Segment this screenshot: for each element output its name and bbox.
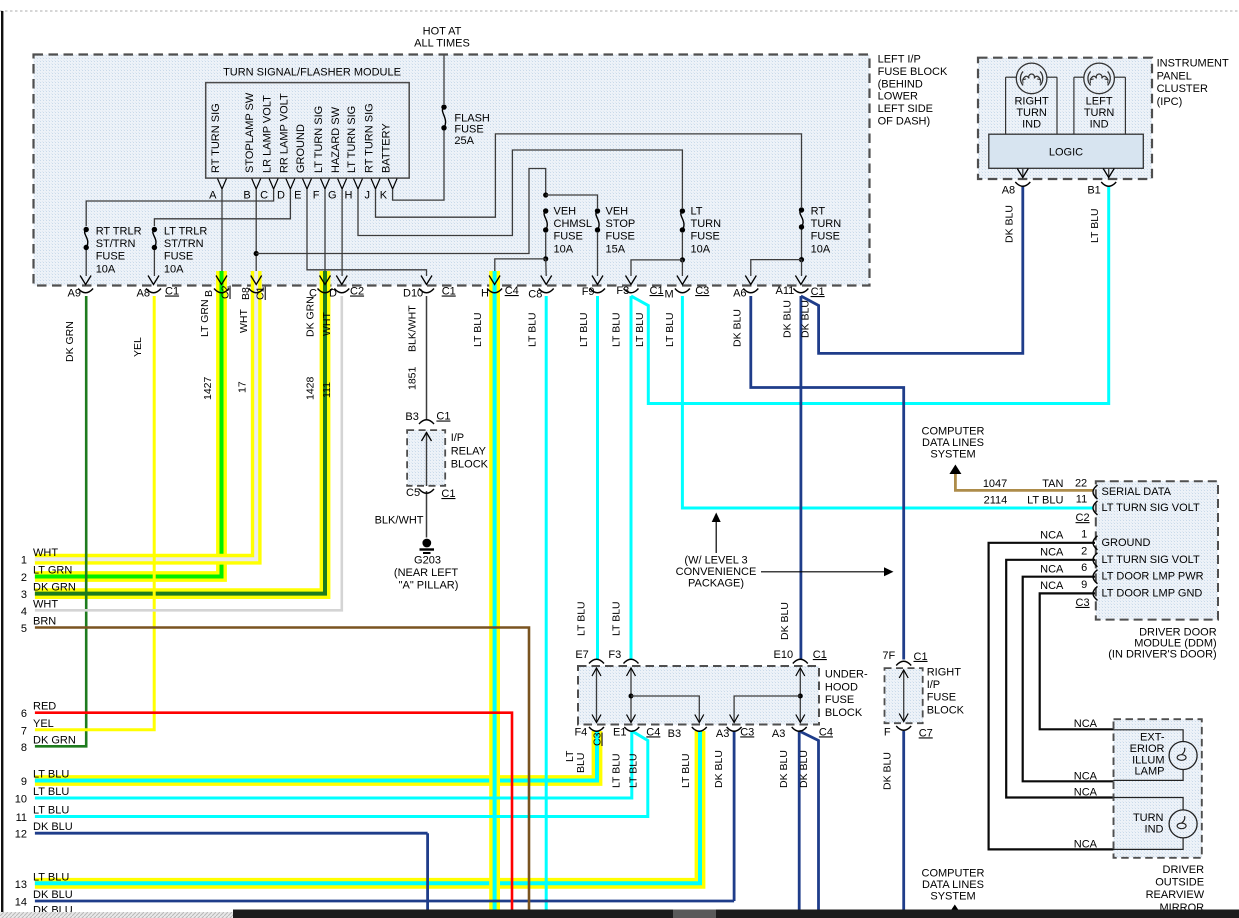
svg-text:DK BLU: DK BLU <box>882 752 894 790</box>
svg-text:DK GRN: DK GRN <box>33 734 76 746</box>
wire NCA DDM pin 2 to TURN IND lamp <box>1006 560 1114 798</box>
svg-text:C1: C1 <box>914 651 928 663</box>
svg-text:LT GRN: LT GRN <box>33 565 72 577</box>
svg-text:HOOD: HOOD <box>825 681 858 693</box>
wire TURN IND lamp return <box>1114 838 1184 850</box>
svg-text:F3: F3 <box>608 649 621 661</box>
wire EXTERIOR ILLUM LAMP return <box>1114 769 1184 780</box>
svg-text:CHMSL: CHMSL <box>554 218 593 230</box>
svg-text:10A: 10A <box>554 243 574 255</box>
flasher module pin-function box <box>206 83 410 179</box>
svg-text:ERIOR: ERIOR <box>1130 743 1165 755</box>
wire DK BLU connector A11 to UHFB pin E10 <box>800 296 803 660</box>
wire LT BLU row 9 to UHFB pin F4 (highlighted) <box>35 731 597 781</box>
svg-text:(IPC): (IPC) <box>1157 96 1183 108</box>
arrow to COMPUTER DATA LINES SYSTEM (lower) <box>949 905 961 914</box>
svg-text:25A: 25A <box>454 135 474 147</box>
svg-text:RED: RED <box>33 701 56 713</box>
svg-text:LT BLU: LT BLU <box>1027 495 1063 507</box>
wire LT BLU UHFB pin E1 to row 10 <box>35 731 632 798</box>
ground G203 symbol <box>422 539 431 548</box>
wire pin B to VEH CHMSL fuse feed <box>256 169 546 254</box>
svg-text:C2: C2 <box>350 286 364 298</box>
svg-text:DK BLU: DK BLU <box>731 309 743 347</box>
connector pin B3 of UHFB <box>692 727 707 731</box>
svg-text:CLUSTER: CLUSTER <box>1157 83 1208 95</box>
wire DK BLU connector A6 to RIGHT I/P FUSE BLOCK pin 7F <box>751 296 904 660</box>
svg-text:DK BLU: DK BLU <box>778 750 790 788</box>
svg-text:TURN: TURN <box>811 218 842 230</box>
svg-text:LT BLU: LT BLU <box>472 312 484 347</box>
svg-text:A8: A8 <box>1002 185 1015 197</box>
svg-text:DK BLU: DK BLU <box>1003 205 1015 243</box>
svg-text:PACKAGE): PACKAGE) <box>688 578 744 590</box>
svg-text:B3: B3 <box>668 728 681 740</box>
connector pin A11 at module edge <box>795 276 806 285</box>
wire DK BLU UHFB pin A3/C3 to row 14 <box>733 731 736 901</box>
svg-text:COMPUTER: COMPUTER <box>922 868 985 880</box>
svg-text:DK GRN: DK GRN <box>64 321 76 362</box>
wire WHT circuit 17 connector B8/C1 to row 1 (highlighted) <box>35 271 256 559</box>
svg-text:OUTSIDE: OUTSIDE <box>1155 877 1204 889</box>
svg-text:TURN: TURN <box>1133 812 1164 824</box>
svg-text:J: J <box>365 190 371 202</box>
svg-text:RT TURN SIG: RT TURN SIG <box>364 103 376 173</box>
svg-text:F3: F3 <box>616 285 629 297</box>
svg-text:LT TURN SIG VOLT: LT TURN SIG VOLT <box>1102 502 1200 514</box>
svg-text:DATA LINES: DATA LINES <box>922 437 984 449</box>
wire LT BLU connector H/C4 down off-page (highlighted) <box>489 271 500 910</box>
svg-text:D10: D10 <box>403 288 423 300</box>
connector pin C8 at module edge <box>541 276 552 285</box>
svg-text:LT BLU: LT BLU <box>627 753 639 788</box>
wire through RIGHT I/P FUSE BLOCK <box>903 670 905 722</box>
wire UHFB internal F3 to E1 <box>630 668 632 723</box>
wire junction to connector A6 <box>751 260 802 276</box>
svg-text:LR LAMP VOLT: LR LAMP VOLT <box>262 95 274 173</box>
wire LT BLU connector C8 down off-page <box>545 296 548 910</box>
svg-text:11: 11 <box>1076 493 1087 505</box>
svg-text:OF DASH): OF DASH) <box>878 116 931 128</box>
svg-text:UNDER-: UNDER- <box>825 669 868 681</box>
wire LT BLU UHFB pin E1 to row 11 <box>35 731 648 817</box>
svg-text:CONVENIENCE: CONVENIENCE <box>676 566 757 578</box>
svg-text:F: F <box>313 190 320 202</box>
svg-text:TURN: TURN <box>691 218 722 230</box>
svg-text:BLOCK: BLOCK <box>927 704 965 716</box>
svg-text:PANEL: PANEL <box>1157 70 1192 82</box>
svg-text:SERIAL DATA: SERIAL DATA <box>1102 486 1172 498</box>
connector pin A9 at module edge <box>80 276 91 285</box>
connector pin E10 / C1 of UHFB <box>793 659 808 663</box>
svg-text:K: K <box>380 190 388 202</box>
svg-text:LOWER: LOWER <box>878 91 918 103</box>
svg-text:TURN: TURN <box>1084 107 1115 119</box>
svg-text:TAN: TAN <box>1042 478 1063 490</box>
svg-text:FUSE: FUSE <box>164 251 193 263</box>
connector pin A6 at module edge <box>745 276 756 285</box>
svg-text:B3: B3 <box>405 411 418 423</box>
wire BLK/WHT circuit 1851 connector D10 to I/P RELAY BLOCK <box>426 296 428 421</box>
connector pin B3 of I/P RELAY BLOCK <box>419 420 434 424</box>
connector pin C at module edge <box>320 276 331 285</box>
svg-text:A3: A3 <box>716 728 729 740</box>
wire YEL connector A8/C1 to row 7 <box>35 296 154 730</box>
module UNDERHOOD FUSE BLOCK box <box>578 666 819 725</box>
svg-text:SYSTEM: SYSTEM <box>930 448 975 460</box>
svg-text:(BEHIND: (BEHIND <box>878 78 923 90</box>
svg-text:1: 1 <box>21 555 27 567</box>
svg-text:E10: E10 <box>774 649 794 661</box>
svg-text:BLK/WHT: BLK/WHT <box>375 515 424 527</box>
wire NCA DDM pin 9 to EXTERIOR ILLUM LAMP <box>1040 593 1114 729</box>
wire junction to VEH STOP fuse top <box>546 195 598 208</box>
svg-text:LT DOOR LMP PWR: LT DOOR LMP PWR <box>1102 571 1204 583</box>
svg-text:NCA: NCA <box>1040 563 1064 575</box>
svg-text:C1: C1 <box>650 285 664 297</box>
svg-text:FUSE: FUSE <box>811 231 840 243</box>
module I/P RELAY BLOCK box <box>407 430 445 486</box>
svg-text:I/P: I/P <box>927 679 940 691</box>
wire yoke RIGHT TURN IND lamp <box>1005 77 1007 134</box>
wire LT BLU connector F3 to UHFB pin F3 <box>630 296 633 660</box>
wire through I/P RELAY BLOCK <box>426 432 428 486</box>
svg-text:4: 4 <box>21 606 27 618</box>
svg-text:NCA: NCA <box>1074 839 1098 851</box>
wire UHFB E10 junction to A3 <box>734 696 800 723</box>
wire LT BLU connector F9 to UHFB pin E7 <box>596 296 599 660</box>
svg-text:NCA: NCA <box>1074 787 1098 799</box>
connector pin C5 of I/P RELAY BLOCK <box>419 489 434 493</box>
svg-text:D: D <box>277 190 285 202</box>
svg-text:5: 5 <box>21 623 27 635</box>
svg-text:FUSE: FUSE <box>691 231 720 243</box>
wire junction to connector C8 <box>545 259 548 276</box>
svg-text:IND: IND <box>1022 118 1041 130</box>
svg-text:(W/ LEVEL 3: (W/ LEVEL 3 <box>684 555 747 567</box>
svg-text:G203: G203 <box>414 555 441 567</box>
svg-text:BRN: BRN <box>33 616 56 628</box>
svg-text:WHT: WHT <box>33 598 58 610</box>
svg-text:YEL: YEL <box>33 718 54 730</box>
svg-text:LT TURN SIG VOLT: LT TURN SIG VOLT <box>1102 554 1200 566</box>
fuse VEH CHMSL FUSE 10A <box>543 208 548 213</box>
svg-text:HAZARD SW: HAZARD SW <box>330 106 342 173</box>
svg-text:VEH: VEH <box>606 206 629 218</box>
wire RT TURN fuse bottom <box>801 229 803 260</box>
svg-text:LEFT I/P: LEFT I/P <box>878 54 921 66</box>
svg-text:2: 2 <box>1081 545 1087 557</box>
connector pin F3 of UHFB <box>624 659 639 663</box>
module U1 TURN SIGNAL/FLASHER MODULE box (inside LEFT I/P FUSE BLOCK) <box>34 55 870 286</box>
svg-text:E7: E7 <box>575 649 588 661</box>
svg-text:8: 8 <box>21 742 27 754</box>
svg-text:TURN: TURN <box>1016 107 1047 119</box>
wire pin H to LT TURN fuse top <box>358 150 682 236</box>
connector pin 7F / C1 of RIGHT I/P FUSE BLOCK <box>896 661 911 665</box>
svg-text:COMPUTER: COMPUTER <box>922 426 985 438</box>
connector pin 6 (LT DOOR LMP PWR) of DDM <box>1093 570 1098 584</box>
svg-text:REARVIEW: REARVIEW <box>1146 889 1205 901</box>
svg-text:BATTERY: BATTERY <box>381 123 393 173</box>
svg-text:HOT AT: HOT AT <box>423 26 462 38</box>
connector pin A3 / C3 of UHFB <box>727 727 742 731</box>
wire junction to connector F3 <box>631 260 682 276</box>
svg-text:2: 2 <box>21 572 27 584</box>
wire UHFB F3 junction to B3 <box>631 696 699 723</box>
wire DK BLU row 12 <box>35 832 428 835</box>
wire UHFB internal E10 to A3 <box>799 668 801 723</box>
module RIGHT I/P FUSE BLOCK box <box>885 668 923 723</box>
svg-text:DRIVER: DRIVER <box>1163 864 1205 876</box>
svg-text:IND: IND <box>1090 118 1109 130</box>
wire WHT circuit 111 connector D to row 4 <box>35 296 342 610</box>
wire junction to connector M <box>681 260 683 276</box>
svg-text:ST/TRN: ST/TRN <box>96 238 136 250</box>
svg-text:LT BLU: LT BLU <box>680 753 692 788</box>
wire BRN row 5 down off-page <box>35 628 529 910</box>
svg-text:C1: C1 <box>811 286 825 298</box>
svg-text:DK BLU: DK BLU <box>33 889 73 901</box>
svg-text:13: 13 <box>15 879 27 891</box>
wire VEH CHMSL fuse bottom <box>545 233 547 259</box>
svg-text:C3: C3 <box>740 726 754 738</box>
svg-text:LEFT SIDE: LEFT SIDE <box>878 103 933 115</box>
wire LT BLU connector F3 to IPC pin B1 <box>631 186 1109 404</box>
svg-text:LT BLU: LT BLU <box>33 871 69 883</box>
svg-text:6: 6 <box>1081 562 1087 574</box>
svg-text:C3: C3 <box>592 732 604 746</box>
wire pin F to connector C <box>324 189 326 276</box>
svg-text:DK GRN: DK GRN <box>33 582 76 594</box>
svg-text:NCA: NCA <box>1074 771 1098 783</box>
svg-text:C5: C5 <box>406 487 420 499</box>
lamp RIGHT TURN IND indicator <box>1016 63 1047 94</box>
svg-text:F4: F4 <box>574 726 587 738</box>
svg-text:LT BLU: LT BLU <box>33 769 69 781</box>
svg-text:10A: 10A <box>691 243 711 255</box>
svg-text:1427: 1427 <box>202 376 214 400</box>
connector pin 1 (GROUND) of DDM <box>1093 536 1098 550</box>
wire pin K BATTERY to FLASH fuse <box>393 130 444 200</box>
svg-text:FUSE: FUSE <box>96 251 125 263</box>
svg-text:ILLUM: ILLUM <box>1132 754 1164 766</box>
svg-text:DK BLU: DK BLU <box>781 300 793 338</box>
svg-text:BLK/WHT: BLK/WHT <box>407 305 419 352</box>
svg-text:GROUND: GROUND <box>1102 537 1151 549</box>
module DRIVER DOOR MODULE (DDM) box <box>1096 481 1218 619</box>
wire LT BLU row 13 to UHFB pin B3 (highlighted) <box>35 731 700 883</box>
module INSTRUMENT PANEL CLUSTER (IPC) box <box>978 58 1152 179</box>
wire pin J to RT TURN fuse top <box>376 134 802 217</box>
svg-text:LT BLU: LT BLU <box>33 805 69 817</box>
svg-text:C1: C1 <box>255 286 267 300</box>
connector pin M at module edge <box>677 276 688 285</box>
svg-text:7F: 7F <box>882 650 895 662</box>
svg-text:TURN SIGNAL/FLASHER MODULE: TURN SIGNAL/FLASHER MODULE <box>223 67 401 79</box>
svg-text:WHT: WHT <box>321 312 333 336</box>
svg-text:NCA: NCA <box>1040 547 1064 559</box>
svg-text:RT: RT <box>811 206 826 218</box>
svg-text:C1: C1 <box>813 649 827 661</box>
wire FLASH fuse to HOT AT ALL TIMES <box>443 56 445 105</box>
fuse LT TRLR ST/TRN FUSE 10A <box>152 227 157 232</box>
connector pin 2 (LT TURN SIG VOLT) of DDM <box>1093 553 1098 567</box>
svg-text:17: 17 <box>237 381 249 393</box>
svg-text:YEL: YEL <box>132 337 144 357</box>
connector pin 9 (LT DOOR LMP GND) of DDM <box>1093 586 1098 600</box>
svg-text:LT BLU: LT BLU <box>611 601 623 636</box>
svg-text:B: B <box>243 190 250 202</box>
svg-text:LT BLU: LT BLU <box>576 601 588 636</box>
junction below VEH CHMSL fuse <box>543 256 548 261</box>
wire LT TRLR fuse to connector A8 <box>153 250 155 276</box>
wire LT TURN fuse bottom <box>681 233 683 260</box>
svg-text:E: E <box>294 190 301 202</box>
block LOGIC inside IPC <box>989 134 1144 168</box>
module DRIVER OUTSIDE REARVIEW MIRROR box <box>1114 719 1202 858</box>
wire DK GRN connector A9 to row 8 <box>35 296 86 746</box>
svg-text:B8: B8 <box>240 287 252 300</box>
wire UHFB internal E7 to F4 <box>596 668 598 723</box>
svg-text:E1: E1 <box>613 726 626 738</box>
svg-text:C3: C3 <box>695 285 709 297</box>
fuse RT TURN FUSE 10A <box>799 207 804 212</box>
svg-text:9: 9 <box>21 776 27 788</box>
svg-text:SYSTEM: SYSTEM <box>930 890 975 902</box>
svg-text:VEH: VEH <box>554 206 577 218</box>
svg-text:NCA: NCA <box>1040 530 1064 542</box>
svg-text:C2: C2 <box>1076 512 1090 524</box>
svg-text:LT BLU: LT BLU <box>527 312 539 347</box>
svg-text:LT: LT <box>691 206 703 218</box>
connector pin B1 of IPC <box>1108 168 1110 178</box>
wire LT GRN circuit 1427 connector B/C2 to row 2 (highlighted) <box>35 271 222 577</box>
svg-text:C: C <box>260 190 268 202</box>
connector pin E7 of UHFB <box>589 659 604 663</box>
svg-text:C1: C1 <box>442 286 456 298</box>
svg-text:LT BLU: LT BLU <box>611 312 623 347</box>
svg-text:ALL TIMES: ALL TIMES <box>414 38 470 50</box>
svg-text:15A: 15A <box>606 243 626 255</box>
connector pin E1 / C4 of UHFB <box>624 727 639 731</box>
junction below RT TURN fuse <box>799 257 804 262</box>
svg-text:NCA: NCA <box>1040 580 1064 592</box>
svg-text:RELAY: RELAY <box>451 445 487 457</box>
svg-text:F9: F9 <box>582 286 595 298</box>
wire pin C to RT TRLR fuse <box>86 189 273 226</box>
connector pin F9 at module edge <box>592 276 603 285</box>
wire EXTERIOR ILLUM LAMP feed <box>1114 730 1184 742</box>
svg-text:22: 22 <box>1075 477 1087 489</box>
svg-text:DK BLU: DK BLU <box>800 300 812 338</box>
svg-text:LAMP: LAMP <box>1135 766 1165 778</box>
svg-text:DK BLU: DK BLU <box>798 750 810 788</box>
svg-text:10A: 10A <box>96 263 116 275</box>
connector pin 22 (SERIAL DATA) of DDM <box>1093 485 1098 499</box>
svg-text:I/P: I/P <box>451 432 464 444</box>
svg-text:LT DOOR LMP GND: LT DOOR LMP GND <box>1102 587 1203 599</box>
fuse FLASH FUSE 25A <box>441 104 446 109</box>
wire NCA DDM pin 6 to EXTERIOR ILLUM LAMP <box>1023 577 1114 782</box>
svg-text:LT BLU: LT BLU <box>664 312 676 347</box>
fuse RT TRLR ST/TRN FUSE 10A <box>84 227 89 232</box>
wire DK BLU RIGHT I/P FUSE BLOCK pin F down off-page <box>902 731 905 910</box>
wire junction to connector A11 <box>801 260 803 276</box>
wire NCA DDM pin 1 GROUND to TURN IND lamp <box>989 543 1114 850</box>
svg-text:M: M <box>665 289 674 301</box>
svg-text:C4: C4 <box>505 285 519 297</box>
svg-text:WHT: WHT <box>238 309 250 333</box>
svg-text:C7: C7 <box>919 727 933 739</box>
svg-text:LT BLU: LT BLU <box>1089 208 1101 243</box>
connector pin A3 / C4 of UHFB <box>792 727 807 731</box>
svg-text:FUSE: FUSE <box>606 231 635 243</box>
svg-text:ST/TRN: ST/TRN <box>164 238 204 250</box>
wire DK GRN circuit 1428 connector C to row 3 (highlighted) <box>35 271 325 594</box>
wire VEH STOP fuse to connector F9 <box>597 233 599 276</box>
svg-text:3: 3 <box>21 589 27 601</box>
lamp EXTERIOR ILLUM LAMP <box>1169 742 1197 770</box>
svg-text:B1: B1 <box>1087 185 1100 197</box>
arrow to COMPUTER DATA LINES SYSTEM (upper) <box>949 465 961 475</box>
svg-text:GROUND: GROUND <box>295 124 307 173</box>
svg-text:RR LAMP VOLT: RR LAMP VOLT <box>278 93 290 173</box>
svg-text:LT BLU: LT BLU <box>33 786 69 798</box>
svg-text:RT TRLR: RT TRLR <box>96 226 142 238</box>
svg-text:FUSE: FUSE <box>454 124 483 136</box>
connector pin B at module edge <box>216 276 227 285</box>
svg-text:1428: 1428 <box>305 376 317 400</box>
svg-text:A8: A8 <box>137 288 150 300</box>
svg-text:LT BLU: LT BLU <box>578 312 590 347</box>
connector pin H at module edge <box>489 276 500 285</box>
callout arrow up to LT BLU wire <box>715 521 717 553</box>
svg-text:C4: C4 <box>819 726 833 738</box>
wire TAN circuit 1047 serial data to DDM pin 22 <box>955 472 1093 490</box>
svg-text:H: H <box>481 288 489 300</box>
svg-text:FUSE: FUSE <box>825 694 854 706</box>
svg-text:DATA LINES: DATA LINES <box>922 879 984 891</box>
svg-text:A11: A11 <box>776 285 795 297</box>
fuse VEH STOP FUSE 15A <box>595 208 600 213</box>
lamp TURN IND <box>1169 810 1197 838</box>
svg-text:LT TRLR: LT TRLR <box>164 226 207 238</box>
svg-text:BLOCK: BLOCK <box>451 459 489 471</box>
svg-text:FUSE: FUSE <box>554 231 583 243</box>
connector pin A8 at module edge <box>148 276 159 285</box>
svg-text:DK BLU: DK BLU <box>33 821 73 833</box>
svg-text:RIGHT: RIGHT <box>1014 96 1049 108</box>
svg-text:9: 9 <box>1081 579 1087 591</box>
svg-text:7: 7 <box>21 725 27 737</box>
svg-text:B: B <box>203 290 215 297</box>
svg-text:11: 11 <box>16 812 27 824</box>
svg-text:C1: C1 <box>165 286 179 298</box>
connector pin F4 / C3 of UHFB <box>589 727 604 731</box>
svg-text:A9: A9 <box>68 288 81 300</box>
svg-text:LT BLU: LT BLU <box>610 753 622 788</box>
svg-text:C1: C1 <box>441 488 455 500</box>
svg-text:WHT: WHT <box>33 547 58 559</box>
svg-text:RT TURN SIG: RT TURN SIG <box>210 103 222 173</box>
svg-text:10A: 10A <box>164 263 184 275</box>
svg-text:C2: C2 <box>220 285 232 299</box>
wire pin A to connector B/C2 <box>221 189 223 276</box>
svg-text:C3: C3 <box>1076 597 1090 609</box>
wire DK BLU row 12 drop off-page <box>426 833 429 909</box>
svg-text:LOGIC: LOGIC <box>1049 147 1083 159</box>
